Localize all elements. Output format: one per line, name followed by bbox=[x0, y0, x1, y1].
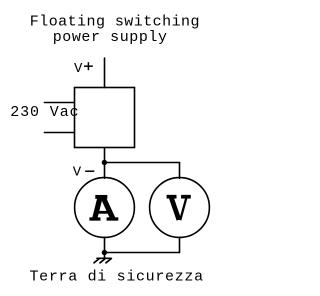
wire 230Vac upper bbox=[44, 102, 74, 104]
minus stroke of V- bbox=[85, 170, 94, 172]
plus sign of V+ bbox=[84, 62, 93, 70]
svg-text:Floating switching: Floating switching bbox=[30, 13, 200, 30]
junction dot node V- bbox=[102, 160, 107, 165]
ground earth symbol bbox=[94, 258, 111, 263]
ground stub bbox=[104, 253, 106, 259]
wire ground junction to V meter bottom horizontal bbox=[105, 252, 180, 254]
svg-text:V: V bbox=[73, 165, 82, 181]
voltmeter letter V (courier-bold style) bbox=[167, 197, 191, 221]
voltmeter circle V bbox=[150, 178, 210, 238]
svg-text:V: V bbox=[74, 61, 83, 77]
wire junction down to A meter top bbox=[104, 163, 106, 179]
wire V+ stub bbox=[104, 58, 106, 88]
wire box bottom to junction bbox=[104, 148, 106, 163]
svg-text:power supply: power supply bbox=[53, 29, 168, 46]
power supply box bbox=[75, 88, 135, 148]
junction dot ground node bbox=[102, 250, 107, 255]
wire down to V meter top bbox=[179, 163, 181, 179]
wire 230Vac lower bbox=[44, 132, 74, 134]
wire A meter bottom to ground junction bbox=[104, 237, 106, 252]
svg-text:230 Vac: 230 Vac bbox=[10, 104, 79, 121]
wire junction to voltmeter branch horizontal bbox=[105, 162, 180, 164]
ammeter letter A (courier-bold style) bbox=[89, 197, 118, 220]
svg-text:Terra di sicurezza: Terra di sicurezza bbox=[30, 269, 204, 286]
ammeter circle A bbox=[75, 178, 135, 238]
wire V meter bottom stub bbox=[179, 237, 181, 252]
